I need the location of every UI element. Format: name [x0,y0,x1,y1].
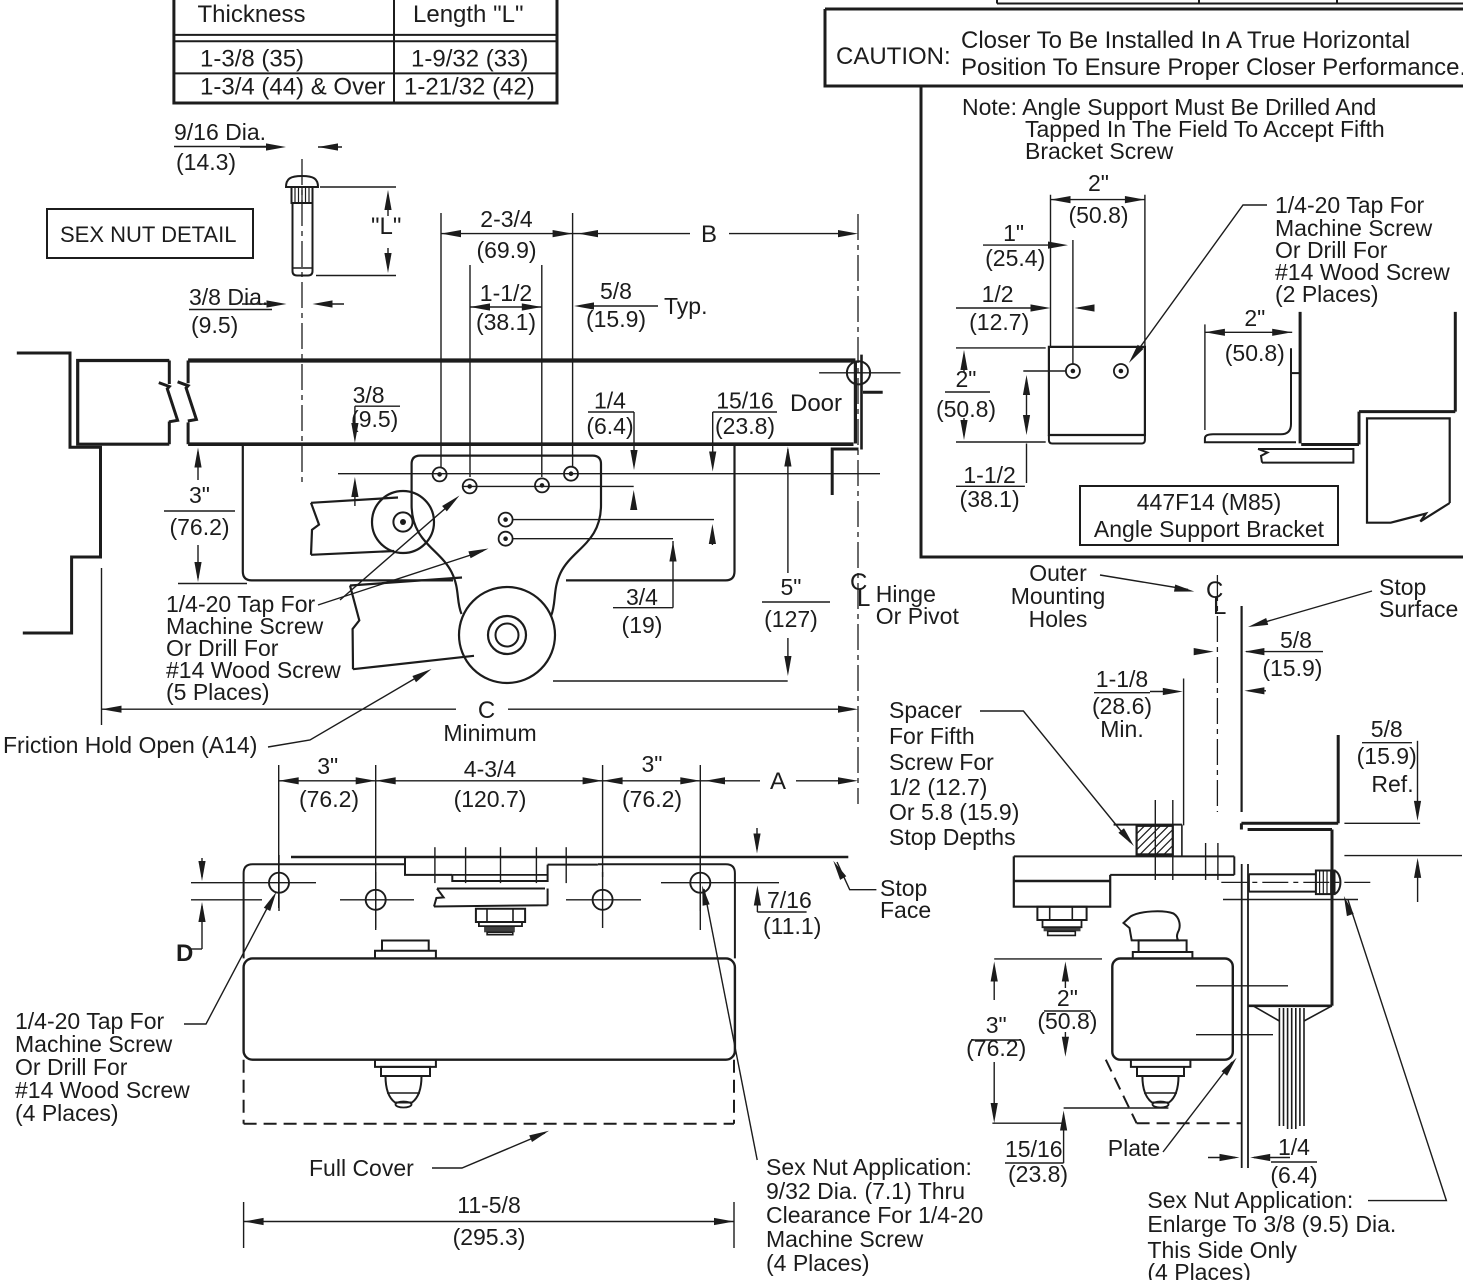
pinion nozzle bottom view [386,1076,422,1103]
svg-text:Bracket Screw: Bracket Screw [1025,138,1174,164]
dim L extension lines [320,186,396,188]
door bracket bottom view shoe [452,865,547,881]
bracket screw tick 1 [434,847,436,883]
svg-text:Machine Screw: Machine Screw [766,1226,924,1252]
cropped table tick 2 [1198,0,1200,4]
dim 3/4 bracket [672,541,674,608]
svg-text:Screw For: Screw For [889,749,994,775]
dim 2in side line [1205,331,1292,333]
stop plate vertical [1240,823,1243,829]
dim B line [573,233,690,235]
svg-text:(4 Places): (4 Places) [1147,1259,1251,1280]
svg-text:L: L [1213,593,1226,620]
bracket front square [1049,347,1145,435]
svg-text:(295.3): (295.3) [453,1224,526,1250]
plate hole E [499,513,513,527]
dim 11-5/8 line [244,1221,734,1223]
frame stop step right [863,391,883,394]
svg-text:(50.8): (50.8) [1037,1008,1097,1034]
dim L arrow line [387,196,389,216]
bracket side ext line [1204,324,1206,430]
svg-text:(9.5): (9.5) [191,312,238,338]
svg-text:11-5/8: 11-5/8 [457,1192,521,1218]
dim 1/4 side arrows [1208,1157,1235,1159]
leader stop face [837,862,876,890]
side view arm channel top line [1014,855,1235,857]
hole row line 1 [338,473,880,475]
hole crosshair verticals [278,855,280,911]
svg-text:3/8 Dia.: 3/8 Dia. [189,284,268,310]
pinion nozzle side view [1142,1076,1178,1103]
door head bar left segment [78,361,170,445]
svg-text:(23.8): (23.8) [1008,1161,1068,1187]
leader to hole B [340,500,455,600]
spacer screw ticks [1154,800,1156,880]
hinge pivot circle [847,361,870,384]
svg-text:2": 2" [956,366,977,392]
door side view with break [1367,418,1450,522]
svg-text:3/8: 3/8 [353,382,385,408]
svg-text:(14.3): (14.3) [176,149,236,175]
table thickness-length outer border [174,0,557,103]
side view arm left block [1014,856,1110,906]
body top step 2 [1139,940,1187,952]
dim 3/8 arrows [242,303,280,305]
leader to bracket hole [1133,205,1267,357]
svg-text:(12.7): (12.7) [969,309,1029,335]
svg-text:3/4: 3/4 [626,584,658,610]
svg-text:Length "L": Length "L" [413,1,523,28]
plate hole A [433,467,447,481]
mount hole inner right [593,890,613,910]
dim C extension line [101,568,103,725]
hole line inner row [191,899,262,901]
mount hole outer left [269,873,289,893]
svg-text:9/16 Dia.: 9/16 Dia. [174,119,266,145]
dim 5/8 ref down arrow [1417,741,1419,816]
arm bottom view (broken) [434,889,548,907]
dim 2in left ref lines [956,347,1046,349]
svg-text:7/16: 7/16 [767,887,812,913]
line under bolt [1223,899,1358,901]
svg-text:1": 1" [1003,220,1024,246]
svg-text:Angle Support Bracket: Angle Support Bracket [1094,516,1325,542]
dim 2-3/4 line [441,233,573,235]
dim 1/2 line [956,307,1044,309]
dim 9/16 arrows [240,146,280,148]
bracket screw tick 3 [500,847,502,883]
cropped table bottom edge top-right [997,3,1463,5]
door head bar top edge [188,358,855,362]
svg-text:Thickness: Thickness [198,1,306,28]
door right edge side view [1331,830,1334,1006]
sex nut knurl below door [1278,1008,1280,1126]
leader outer mounting holes [1100,575,1188,590]
stop face line [291,856,848,859]
leader friction hold open [268,672,426,747]
closer pinion boss circle [459,587,555,683]
cropped table tick 3 [1336,0,1338,4]
dim 3in side arrows [993,966,995,1000]
hinge stop line right of door [860,355,863,450]
leader to hole F [318,551,483,605]
svg-text:CAUTION:: CAUTION: [836,43,951,70]
dim 5/8 typ line [579,305,658,307]
screw hidden line 1 [1196,985,1288,987]
svg-text:Or Pivot: Or Pivot [876,603,960,629]
arm stub side view (broken) [1124,911,1180,940]
svg-text:Minimum: Minimum [443,720,536,746]
frame soffit thick line [1241,822,1338,825]
sex nut centerline [301,159,303,485]
hole line outer row [191,882,316,884]
svg-text:Full Cover: Full Cover [309,1155,414,1181]
dim 3in bottom-right line [603,780,701,782]
side view arm flange [1110,874,1234,876]
447F14 label box [1080,486,1338,545]
svg-text:D: D [176,940,193,967]
door bottom edge side view [1248,1004,1332,1007]
svg-text:1-1/2: 1-1/2 [480,280,532,306]
dim 15/16 leader arrow [712,412,714,467]
door bar break bolt 2 [178,382,197,421]
mount hole inner left [366,890,386,910]
svg-text:Typ.: Typ. [664,293,707,319]
dim 2in top line [1051,199,1145,201]
dim 5/8 stop depth arrows [1196,651,1208,653]
hole row line F [513,538,673,540]
svg-text:Ref.: Ref. [1371,771,1413,797]
sex nut bolt shank [293,203,313,276]
dim 1-1/8 arrow [1150,691,1177,693]
leader 1/4-20 (4 places) [184,897,273,1024]
svg-text:Min.: Min. [1100,716,1143,742]
bracket hole centerline left [1072,240,1074,364]
dim 1in line [983,244,1062,246]
stop surface line [1240,606,1242,812]
closer body side view [1112,959,1233,1060]
screw ticks near centerline [1205,843,1207,880]
cover dashed side view [1106,1060,1137,1124]
svg-text:3": 3" [317,753,338,779]
svg-text:2": 2" [1088,170,1109,196]
screw hidden line 2 [1196,1034,1273,1036]
sex bolt centerline [1221,881,1370,883]
svg-text:(19): (19) [622,612,663,638]
svg-text:2-3/4: 2-3/4 [480,206,533,232]
sex nut detail label box [47,209,253,258]
frame jamb profile left [17,353,101,633]
dim 1/4 pair up arrow [633,495,635,510]
svg-text:447F14 (M85): 447F14 (M85) [1137,489,1281,515]
closer body outline [243,444,453,580]
arm pivot circle [372,491,434,553]
dim 3in side bottom ref [992,1122,1063,1124]
bracket screw tick 2 [465,847,467,883]
dim 5/8 ref top line [1344,822,1420,824]
svg-text:(127): (127) [764,606,818,632]
svg-text:(11.1): (11.1) [763,913,821,939]
dim 1-1/8 ext line [1183,679,1185,826]
frame recess left wall [1181,825,1183,857]
dim D arrows [201,858,203,877]
svg-text:Plate: Plate [1108,1135,1160,1161]
bracket screw tick 4 [535,847,537,883]
frame face line left of spacer [1114,824,1182,826]
svg-text:15/16: 15/16 [1005,1136,1063,1162]
spacer hatched block [1137,826,1173,855]
svg-text:B: B [701,221,717,248]
closer arm under bracket (broken) [1258,449,1353,463]
hole row line 2 [462,485,634,487]
closer top plate bottom view [244,864,405,958]
svg-text:(23.8): (23.8) [715,413,775,439]
dim 15/16 side arrow [1063,1115,1065,1163]
door bracket shoe top line [548,864,598,866]
plate hole F [499,532,513,546]
svg-text:Surface: Surface [1379,596,1458,622]
dim 5/8 ref bottom line [1344,855,1462,857]
svg-text:5": 5" [781,574,802,600]
knurl shoulders [1253,1006,1279,1021]
full cover dashed outline [243,1060,245,1124]
svg-text:1-3/4 (44) & Over: 1-3/4 (44) & Over [200,74,385,101]
hole row line E [513,519,714,521]
hinge centerline [857,214,859,804]
svg-text:5/8: 5/8 [1371,716,1403,742]
svg-text:(6.4): (6.4) [586,413,633,439]
sex nut bolt knurl [292,187,313,203]
dim 1/4 leader arrow [633,412,635,464]
hinge pivot horizontal line [819,372,900,374]
svg-text:1/2: 1/2 [982,281,1014,307]
svg-text:(50.8): (50.8) [936,396,996,422]
plate hole C [535,478,549,492]
svg-text:SEX NUT DETAIL: SEX NUT DETAIL [60,222,236,247]
svg-text:1-1/8: 1-1/8 [1096,666,1148,692]
svg-text:Or 5.8 (15.9): Or 5.8 (15.9) [889,799,1019,825]
svg-text:9/32 Dia. (7.1) Thru: 9/32 Dia. (7.1) Thru [766,1178,965,1204]
svg-text:(76.2): (76.2) [169,514,229,540]
bracket side angle [1205,348,1296,442]
dim 11-5/8 ext lines [243,1202,245,1248]
svg-text:Position To Ensure Proper Clos: Position To Ensure Proper Closer Perform… [961,54,1463,81]
cropped table tick 1 [996,0,998,4]
dim 15/16 pair up arrow [711,529,713,545]
door bar break stub right bottom [187,422,190,444]
svg-text:(15.9): (15.9) [586,306,646,332]
dim 1-1/2 line [470,306,542,308]
door bar break stub left bottom [168,422,171,445]
outer mounting holes centerline [1216,575,1218,812]
leader spacer [980,711,1130,842]
sex bolt shaft [1249,874,1316,891]
caution box border [825,9,1463,86]
svg-text:(25.4): (25.4) [985,245,1045,271]
svg-text:Holes: Holes [1029,606,1088,632]
right panel border [921,86,1463,557]
svg-text:(50.8): (50.8) [1068,202,1128,228]
svg-text:(76.2): (76.2) [966,1035,1026,1061]
sex bolt knurled nut [1316,871,1335,895]
svg-text:(38.1): (38.1) [476,309,536,335]
dim 2-3/4 extension line left [440,213,442,467]
svg-text:(4 Places): (4 Places) [766,1250,870,1276]
bracket side top connector [1291,372,1300,374]
svg-text:2": 2" [1244,305,1265,331]
svg-text:1/2 (12.7): 1/2 (12.7) [889,774,987,800]
svg-text:Sex Nut Application:: Sex Nut Application: [1147,1187,1353,1213]
dim A line [700,780,760,782]
svg-text:(15.9): (15.9) [1357,743,1417,769]
leader sex nut bottom-left [704,889,757,1160]
svg-text:1-3/8 (35): 1-3/8 (35) [200,46,304,73]
dim 5in arrow line [787,449,789,573]
svg-text:5/8: 5/8 [1280,627,1312,653]
frame wall corner vertical [1337,735,1340,823]
closer mounting plate [412,456,601,616]
table row separator [174,72,557,74]
door bar break bolt 1 [159,383,178,422]
svg-text:(38.1): (38.1) [960,486,1020,512]
svg-text:15/16: 15/16 [716,388,774,414]
svg-text:1-9/32 (33): 1-9/32 (33) [411,46,528,73]
pinion washer hatched [484,926,515,932]
dim 3in arrow line [197,452,199,480]
pinion spindle bottom view [375,1060,436,1067]
dim hole-to-bottom arrows [1026,380,1028,430]
leader stop surface [1253,591,1372,626]
dim 5/8 ref up arrow [1417,862,1419,902]
bracket front foot [1049,435,1145,444]
svg-text:(50.8): (50.8) [1225,340,1285,366]
pinion side view step [1131,1060,1191,1067]
leader full cover [432,1133,545,1168]
dim 4-3/4 line [376,780,603,782]
dim 15/16 side ref line [1064,1107,1169,1109]
closer body bottom view [244,958,735,1059]
dim 3in bottom ref line [178,583,247,585]
plate hole D [564,467,578,481]
svg-text:1-21/32 (42): 1-21/32 (42) [404,74,535,101]
dim 2in left arrows [963,355,965,372]
door right edge [854,361,857,444]
dim 1-1/2 bracket [1026,444,1028,484]
sex nut bolt head [286,176,318,187]
svg-text:(6.4): (6.4) [1270,1162,1317,1188]
plate hole B [463,479,477,493]
leader plate [1163,1062,1232,1152]
svg-text:(120.7): (120.7) [454,786,527,812]
dim 2in side arrows [1064,966,1066,988]
body lower edge line right of boss [553,680,788,682]
closer arm lower shoe (broken) [350,578,474,670]
dim 7/16 arrows [756,828,758,849]
dim 1-1/8 pair arrow [1248,690,1266,692]
svg-text:A: A [770,768,786,795]
dim 3in bottom-right ext line [699,765,701,930]
svg-text:4-3/4: 4-3/4 [464,756,517,782]
svg-text:1/4: 1/4 [1278,1134,1310,1160]
dim 3in side top ref [994,958,1102,960]
svg-text:(15.9): (15.9) [1262,655,1322,681]
door bracket bottom view left tab [405,857,452,875]
spacer hatch lines [1137,826,1145,834]
pinion nut bottom view [476,909,525,922]
frame jamb right vertical [1454,312,1457,412]
body top step 1 [1133,952,1193,959]
door bar break stub left top [168,361,171,385]
door bar break stub right top [187,361,190,384]
svg-text:5/8: 5/8 [600,278,632,304]
table header double rule [174,34,557,36]
bracket hole left [1066,364,1080,378]
dim 2-3/4 extension line right [572,213,574,467]
svg-text:(2 Places): (2 Places) [1275,281,1379,307]
svg-text:Enlarge To 3/8 (9.5) Dia.: Enlarge To 3/8 (9.5) Dia. [1147,1211,1396,1237]
bracket screw tick 5 [565,847,567,883]
dim 3in bottom-left ext lines [278,765,280,908]
svg-text:1/4: 1/4 [594,388,626,414]
svg-text:3": 3" [642,751,663,777]
sex bolt cap [1335,871,1341,895]
svg-text:(4 Places): (4 Places) [15,1100,119,1126]
svg-text:Stop Depths: Stop Depths [889,824,1016,850]
svg-text:Face: Face [880,897,931,923]
door top edge side view [1248,828,1332,831]
svg-text:(69.9): (69.9) [476,237,536,263]
svg-text:Sex Nut Application:: Sex Nut Application: [766,1154,972,1180]
svg-text:3": 3" [189,482,210,508]
svg-text:Spacer: Spacer [889,697,962,723]
svg-text:(76.2): (76.2) [622,786,682,812]
svg-text:For Fifth: For Fifth [889,723,975,749]
body valve boss [382,941,429,951]
dim 3/8 door arrows [354,406,356,437]
mount hole outer right [690,873,710,893]
svg-text:Door: Door [790,390,842,417]
closer arm upper (broken) [311,498,398,555]
dim 3in bottom-left line [279,780,376,782]
dim C line [102,708,457,710]
svg-text:Closer To Be Installed In A Tr: Closer To Be Installed In A True Horizon… [961,27,1410,54]
svg-text:(76.2): (76.2) [299,786,359,812]
svg-text:(5 Places): (5 Places) [166,679,270,705]
frame rabbet below door [832,449,858,495]
svg-text:(9.5): (9.5) [351,406,398,432]
frame jamb side view [1299,312,1302,444]
dim 2in top ext lines [1050,195,1052,347]
table column divider [393,0,395,103]
bracket hole right [1114,364,1128,378]
svg-text:"L": "L" [371,213,401,240]
svg-text:L: L [857,585,870,612]
dim 4-3/4 ext line [602,765,604,877]
dim 1-1/2 extension lines [469,265,471,477]
svg-text:Friction Hold Open (A14): Friction Hold Open (A14) [3,732,257,758]
svg-text:1-1/2: 1-1/2 [963,462,1015,488]
plate side view lines [1241,864,1243,1168]
door head bar bottom edge [188,442,853,446]
side view pinion nut [1037,907,1086,920]
svg-text:Clearance For 1/4-20: Clearance For 1/4-20 [766,1202,983,1228]
hole row ref line bracket [1023,370,1066,372]
leader sex nut right [1348,900,1446,1201]
